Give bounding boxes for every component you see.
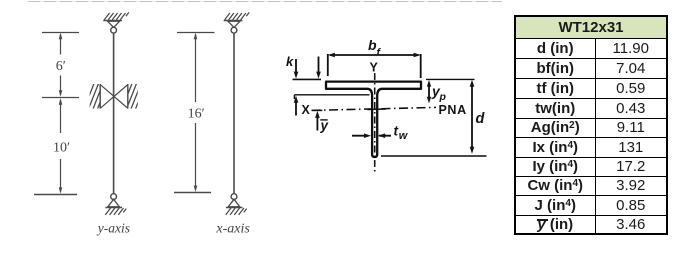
row J: [515, 195, 667, 215]
dimension line bf: [328, 53, 421, 58]
X axis dash-dot line: [312, 107, 437, 110]
bottom pin support x-axis: hatching: [226, 208, 247, 215]
svg-text:t: t: [394, 124, 399, 139]
row ybar: [515, 215, 667, 234]
top pin support x-axis: triangle: [228, 21, 240, 27]
svg-text:X: X: [302, 103, 311, 117]
dimension 16' arrow line: [194, 33, 198, 192]
svg-text:w: w: [399, 130, 409, 142]
ybar tick on X axis: [313, 109, 323, 111]
overline bar of y-bar label in table: [537, 219, 549, 221]
svg-text:y: y: [320, 118, 330, 133]
table header WT12x31: [515, 16, 667, 234]
dimension 10' arrow line: [59, 98, 63, 194]
faint top rule: [28, 1, 502, 2]
label bf: [368, 37, 382, 59]
label yp: [431, 83, 447, 103]
table WT12x31 section properties: [514, 15, 668, 235]
top pin support y-axis: triangle: [108, 21, 120, 27]
flange underside reference line: [294, 95, 369, 99]
svg-text:y-axis: y-axis: [96, 220, 130, 235]
top pin support x-axis: ground line: [224, 20, 243, 22]
bottom pin support x-axis: pin circle: [231, 194, 237, 200]
bottom pin support x-axis: ground line: [226, 207, 243, 209]
svg-text:f: f: [377, 47, 382, 59]
dimension tick top-left: [42, 32, 79, 34]
dimension tick bottom-left: [34, 194, 77, 196]
bf extension line left: [327, 54, 329, 76]
svg-text:10′: 10′: [53, 140, 70, 155]
stem bottom extension line: [381, 155, 487, 157]
svg-text:Y: Y: [370, 61, 379, 75]
bottom pin support y-axis: ground line: [106, 207, 123, 209]
bottom pin support y-axis: hatching: [105, 208, 126, 215]
tw dimension arrows: [352, 133, 391, 138]
brace X diagonals: [100, 85, 128, 109]
row Cw: [515, 176, 667, 195]
svg-text:x-axis: x-axis: [215, 221, 250, 236]
top pin support x-axis: hatching: [225, 12, 250, 19]
dimension tick middle-left: [42, 97, 79, 99]
top pin support x-axis: pin circle: [231, 27, 237, 33]
bf extension line right: [420, 54, 422, 78]
label Y: [370, 61, 379, 75]
svg-text:k: k: [286, 54, 294, 69]
label y-axis: [96, 220, 130, 235]
k dimension arrows: [294, 57, 321, 79]
svg-text:PNA: PNA: [439, 103, 467, 117]
flange top extension line right: [426, 78, 475, 80]
dimension 6' arrow line: [59, 33, 63, 97]
label x-axis: [215, 221, 250, 236]
X axis solid segment across stem: [368, 108, 387, 111]
label tw: [394, 124, 409, 142]
label 16': [188, 107, 205, 122]
svg-text:16′: 16′: [188, 107, 205, 122]
top pin support y-axis: ground line: [103, 20, 122, 22]
svg-text:d: d: [476, 111, 486, 127]
WT shape outline (flange + stem): [326, 82, 421, 157]
column y-axis member: [113, 33, 115, 194]
ybar arrow: [315, 111, 320, 131]
mid-height brace right wall (hatched): [120, 81, 151, 114]
label 10': [53, 140, 70, 155]
section centerline (Y axis dash-dot): [374, 73, 376, 174]
row Ag: [515, 118, 667, 137]
column x-axis member: [233, 33, 235, 194]
d dimension line: [470, 80, 475, 154]
dimension tick top 16': [177, 32, 215, 34]
row bf: [515, 58, 667, 78]
bottom pin support y-axis: triangle: [108, 199, 120, 207]
label d: [476, 111, 486, 127]
svg-text:6′: 6′: [56, 59, 66, 74]
dimension tick bottom 16': [174, 192, 211, 194]
label X: [302, 103, 311, 117]
top pin support y-axis: hatching: [104, 12, 129, 19]
k reference line: [293, 78, 322, 80]
top pin support y-axis: pin circle: [111, 27, 117, 33]
label k: [286, 54, 294, 69]
label ybar: [320, 118, 330, 133]
row tw: [515, 98, 667, 118]
bottom pin support y-axis: pin circle: [111, 194, 117, 200]
label PNA: [439, 103, 467, 117]
left reference arrow: [294, 96, 299, 116]
label 6': [56, 59, 66, 74]
svg-text:p: p: [439, 91, 447, 103]
row Ix: [515, 137, 667, 157]
bottom pin support x-axis: triangle: [228, 199, 240, 207]
row d: [515, 38, 667, 58]
row Iy: [515, 157, 667, 176]
yp dimension arrows: [427, 80, 431, 103]
ybar overline: [320, 119, 327, 121]
mid-height brace left wall (hatched): [82, 81, 113, 114]
row tf: [515, 78, 667, 98]
